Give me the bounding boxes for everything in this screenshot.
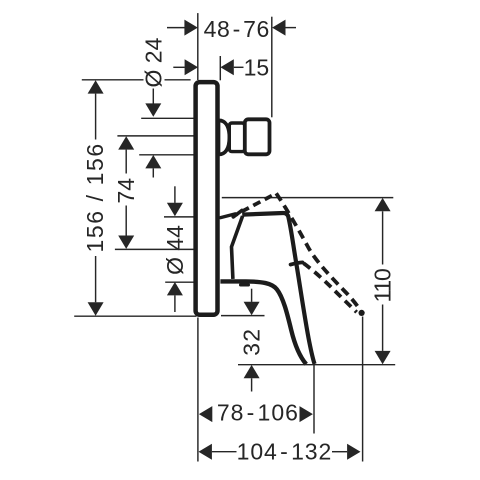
dimension Ø24	[140, 37, 166, 177]
svg-text:Ø 24: Ø 24	[140, 37, 166, 87]
svg-text:104-132: 104-132	[237, 439, 333, 465]
svg-text:15: 15	[244, 55, 270, 81]
extension line handle bottom baseline (y=365)	[238, 364, 395, 366]
svg-text:156 / 156: 156 / 156	[82, 142, 108, 252]
extension line plate front (x=220)	[219, 56, 221, 80]
lever head top and right edge with tail	[242, 213, 314, 364]
extension line wall bottom (x=198)	[197, 318, 199, 462]
dimension 104-132	[199, 439, 361, 465]
extension line plate top level (y=80)	[82, 79, 191, 81]
svg-text:32: 32	[239, 328, 265, 356]
svg-text:48-76: 48-76	[204, 16, 270, 42]
extension line knob bottom (y=155)	[139, 154, 194, 156]
extension line raised handle top (y=198)	[222, 197, 393, 199]
dimension 74	[113, 136, 139, 249]
svg-text:Ø 44: Ø 44	[162, 225, 188, 275]
raised lever dashed top edge	[236, 193, 277, 215]
dimension 110	[370, 198, 396, 364]
svg-text:74: 74	[113, 178, 139, 204]
svg-text:78-106: 78-106	[217, 400, 299, 426]
dimension 15	[173, 55, 269, 81]
extension line handle axis (y=249)	[115, 248, 194, 250]
raised lever tip dot	[359, 310, 365, 316]
extension line handle tip (x=314)	[313, 365, 315, 434]
escutcheon plate	[196, 82, 218, 315]
handle cone top edge	[221, 214, 236, 218]
dimension 32	[239, 289, 265, 392]
dimension 48-76	[167, 16, 296, 42]
extension line knob top (y=118)	[141, 117, 194, 119]
dimension Ø44	[162, 186, 188, 312]
extension line cone bottom (y=282)	[165, 281, 194, 283]
lever head left edge	[232, 216, 243, 279]
extension line plate bottom level left (y=316)	[74, 315, 196, 317]
svg-text:110: 110	[370, 269, 396, 302]
cone base foot	[241, 283, 249, 286]
extension line cone top (y=216)	[164, 216, 194, 218]
dimension 78-106	[199, 400, 313, 426]
extension line knob axis (y=136)	[117, 135, 193, 137]
raised lever underside solid tick	[291, 262, 303, 264]
diverter knob middle cylinder	[229, 123, 244, 152]
handle underside sweep and tail left edge	[220, 281, 306, 364]
extension line wall top (x=198)	[197, 13, 199, 80]
raised lever dashed front edge	[276, 193, 360, 310]
extension line knob front top (x=272)	[271, 17, 273, 118]
diverter knob front	[245, 119, 270, 154]
raised lever dashed underside edge	[304, 263, 357, 312]
handle stem nub	[233, 210, 242, 217]
diverter knob neck	[219, 120, 230, 154]
extension line plate bottom stub right (y=316)	[221, 315, 265, 317]
extension line raised tip (x=363)	[362, 317, 364, 462]
dimension 156/156	[82, 80, 108, 316]
